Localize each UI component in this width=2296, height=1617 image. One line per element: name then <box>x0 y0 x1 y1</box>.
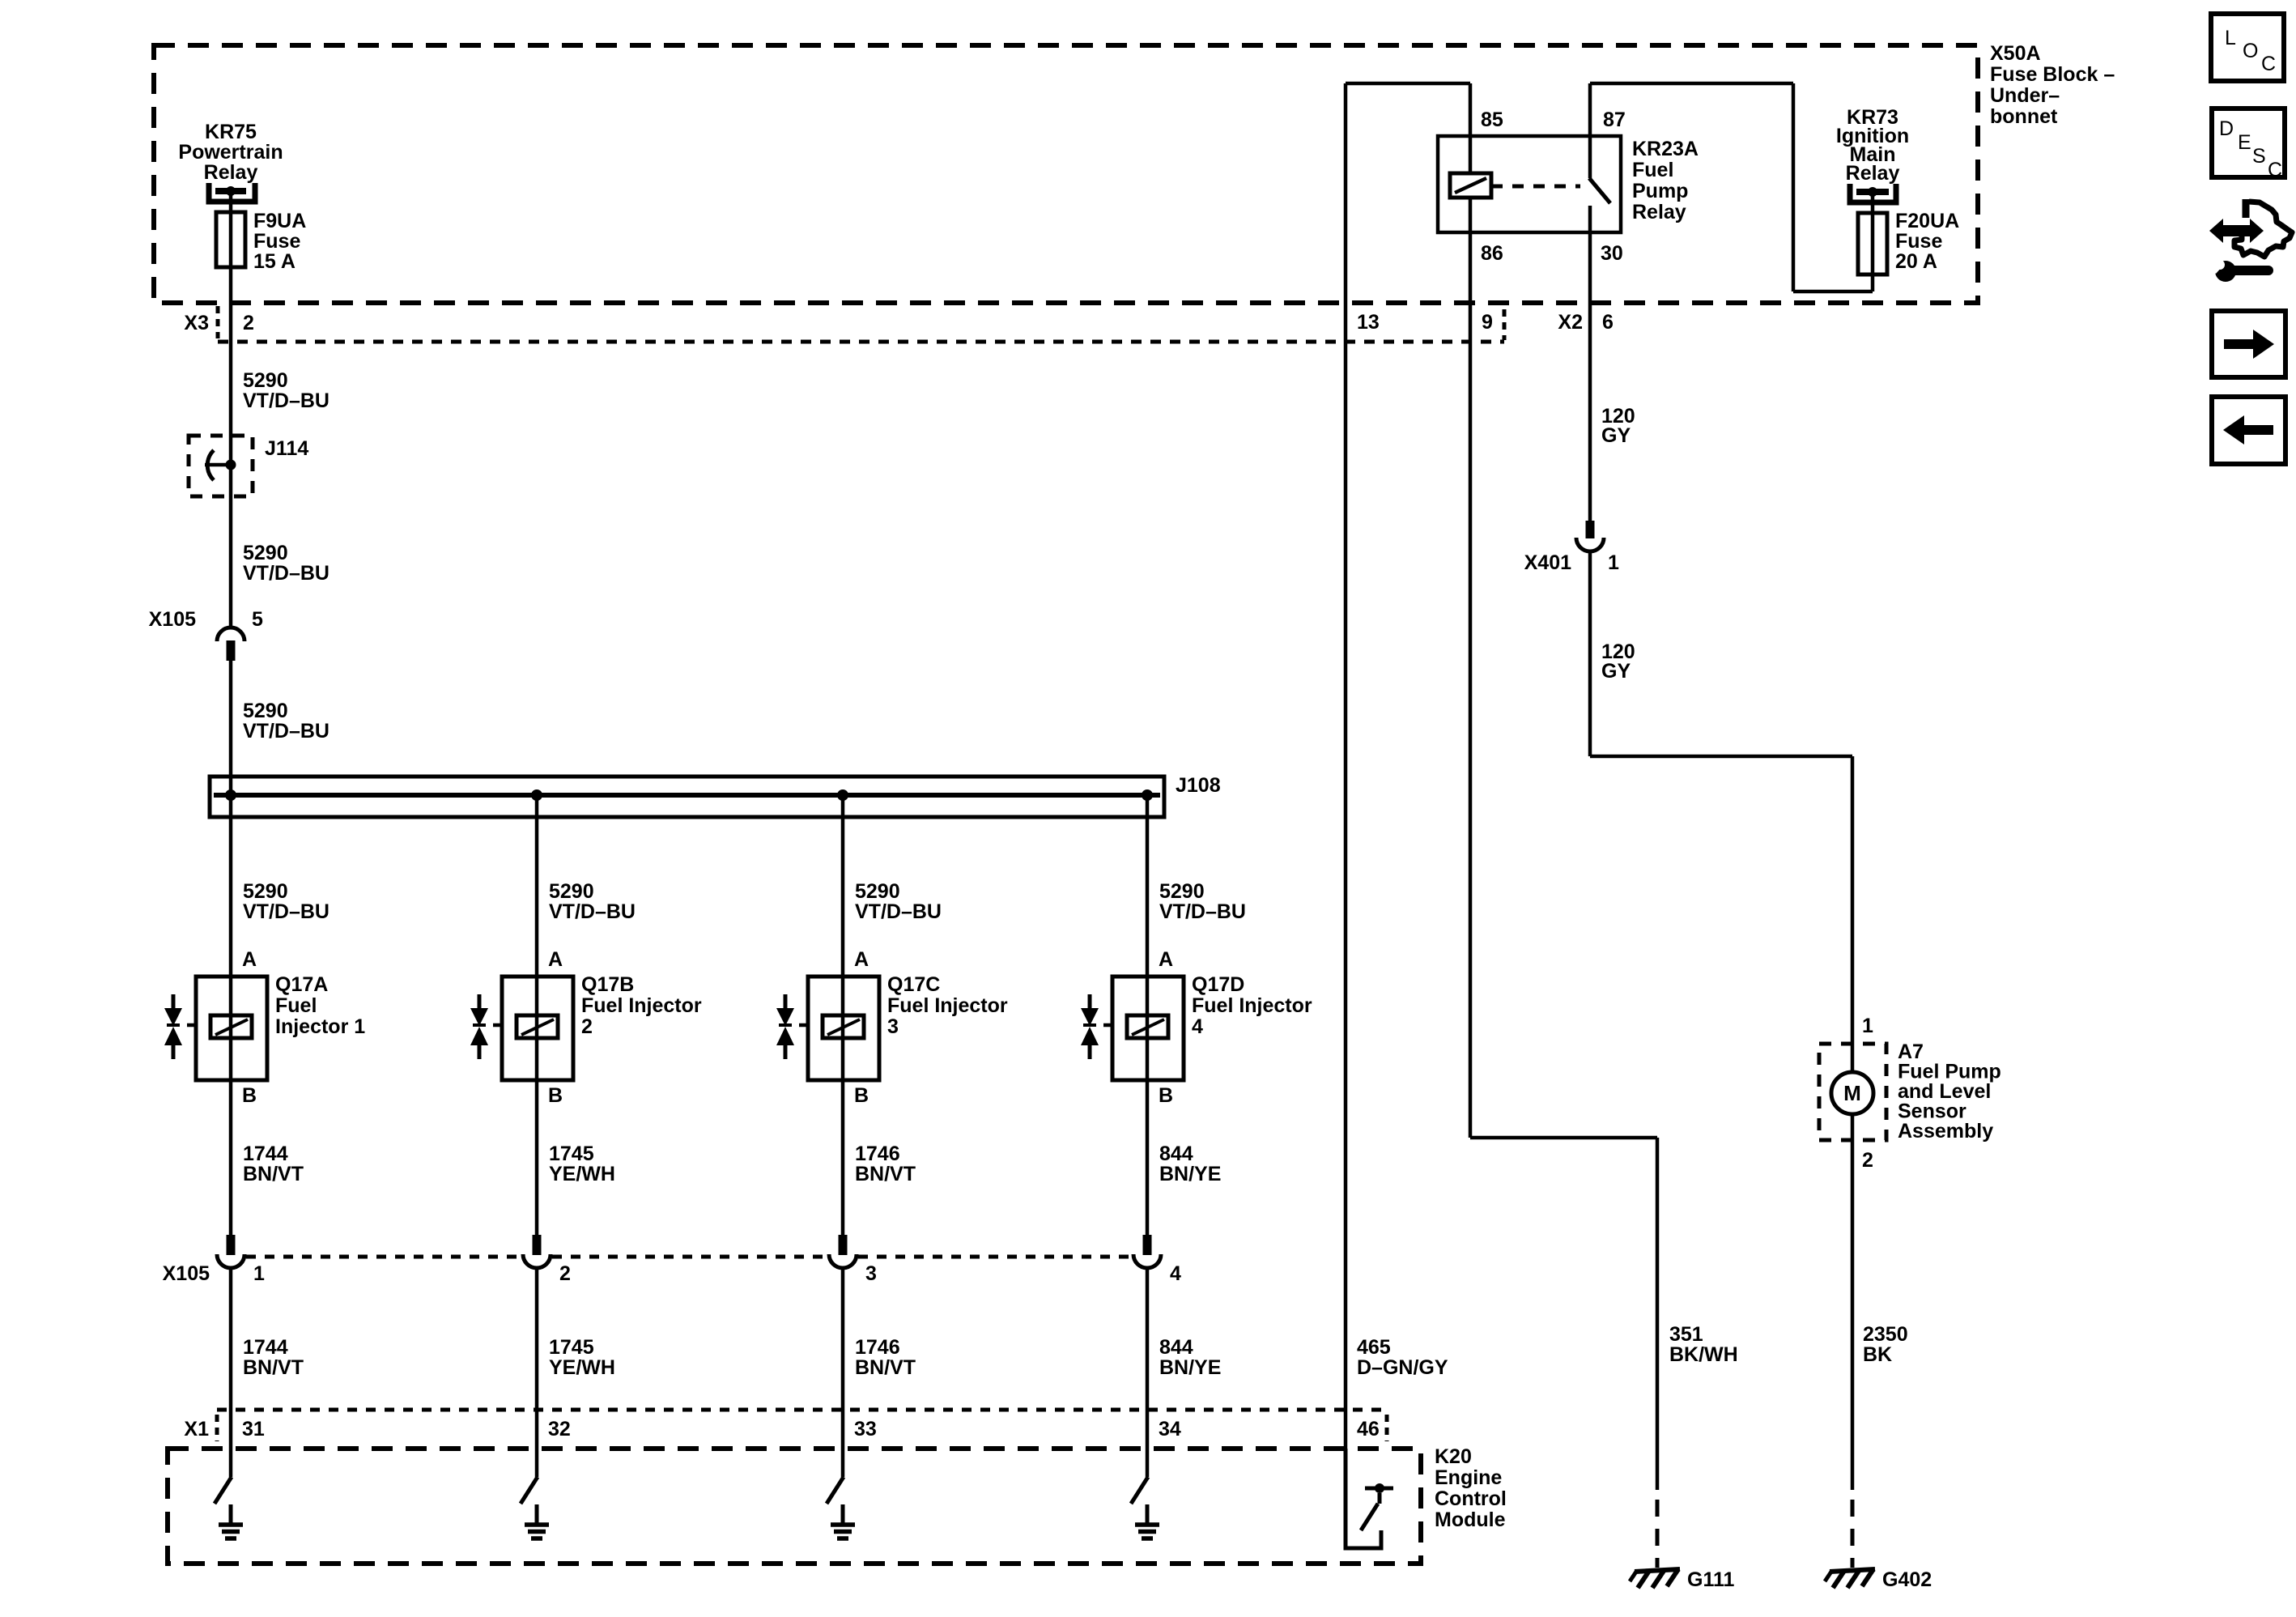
svg-text:4: 4 <box>1192 1015 1203 1038</box>
connector X3 tick mark <box>216 306 220 338</box>
ground symbol inside ECM col 4 <box>1146 1504 1150 1524</box>
junction node col3 <box>837 789 848 801</box>
svg-text:844: 844 <box>1159 1336 1193 1359</box>
relay KR23A coil-contact dashed link <box>1491 185 1580 189</box>
svg-text:5290: 5290 <box>243 880 288 903</box>
fuel injector Q17C coil <box>841 977 845 1080</box>
relay KR23A Fuel Pump Relay box <box>1438 136 1621 232</box>
wire X3 to splice J114 <box>229 342 233 465</box>
wire X105 to ECM pin 33 <box>841 1268 845 1477</box>
svg-text:D–GN/GY: D–GN/GY <box>1357 1356 1448 1379</box>
wire J108 to injector Q17B <box>535 795 539 977</box>
svg-text:Relay: Relay <box>204 161 258 184</box>
svg-text:351: 351 <box>1669 1323 1703 1346</box>
svg-text:G111: G111 <box>1687 1568 1734 1591</box>
icon box LOC <box>2211 14 2284 81</box>
wire injector Q17B to connector X105 <box>535 1080 539 1255</box>
splice pack J108 bus bar <box>214 793 1160 798</box>
fuse F20UA <box>1871 213 1875 274</box>
svg-text:Relay: Relay <box>1632 201 1686 223</box>
connector X401 male pin <box>1586 521 1595 538</box>
svg-text:BK/WH: BK/WH <box>1669 1343 1738 1366</box>
svg-text:Fuse: Fuse <box>1895 230 1942 253</box>
relay KR23A switch contact <box>1588 83 1592 178</box>
svg-text:5290: 5290 <box>855 880 900 903</box>
wire X105 to ECM pin 34 <box>1146 1268 1150 1477</box>
svg-text:C: C <box>2261 53 2276 75</box>
svg-text:YE/WH: YE/WH <box>549 1356 615 1379</box>
svg-text:Assembly: Assembly <box>1898 1120 1993 1143</box>
svg-text:2: 2 <box>243 312 254 334</box>
svg-text:34: 34 <box>1159 1418 1181 1440</box>
svg-text:20 A: 20 A <box>1895 250 1937 273</box>
svg-text:X105: X105 <box>163 1262 210 1285</box>
svg-text:3: 3 <box>887 1015 899 1038</box>
svg-text:A: A <box>1159 948 1173 971</box>
wire J108 to injector Q17D <box>1146 795 1150 977</box>
fuel injector Q17C box <box>808 977 879 1080</box>
wire X105 to ECM pin 32 <box>535 1268 539 1477</box>
svg-text:VT/D–BU: VT/D–BU <box>855 900 942 923</box>
svg-text:B: B <box>1159 1084 1173 1107</box>
ground symbol inside ECM col 1 <box>229 1504 233 1524</box>
svg-text:2: 2 <box>581 1015 593 1038</box>
svg-text:Q17A: Q17A <box>275 973 328 996</box>
svg-text:GY: GY <box>1601 424 1631 447</box>
svg-text:L: L <box>2225 27 2236 49</box>
icon box DESC <box>2212 109 2285 177</box>
fuse block X50A dashed outline <box>154 45 1978 303</box>
svg-text:VT/D–BU: VT/D–BU <box>243 389 330 412</box>
icon box arrow right <box>2212 311 2285 377</box>
svg-text:VT/D–BU: VT/D–BU <box>1159 900 1246 923</box>
svg-text:Q17B: Q17B <box>581 973 634 996</box>
svg-text:Engine: Engine <box>1435 1466 1502 1489</box>
svg-text:32: 32 <box>548 1418 571 1440</box>
svg-text:Module: Module <box>1435 1508 1506 1531</box>
svg-text:5: 5 <box>252 608 263 631</box>
wire pin 87 to fuse F20UA <box>1590 82 1793 86</box>
svg-text:Fuse Block –: Fuse Block – <box>1990 63 2115 86</box>
wire injector Q17C to connector X105 <box>841 1080 845 1255</box>
svg-text:B: B <box>548 1084 563 1107</box>
wire pin 86 down to connector row (node 9) <box>1469 232 1473 1138</box>
svg-text:GY: GY <box>1601 660 1631 683</box>
connector X401 female arc <box>1576 538 1604 551</box>
svg-text:F9UA: F9UA <box>253 210 306 232</box>
svg-text:VT/D–BU: VT/D–BU <box>243 562 330 585</box>
wire J108 to injector Q17C <box>841 795 845 977</box>
svg-text:KR23A: KR23A <box>1632 138 1699 160</box>
svg-text:S: S <box>2252 145 2266 168</box>
svg-text:3: 3 <box>865 1262 877 1285</box>
svg-text:Fuel Injector: Fuel Injector <box>887 994 1008 1017</box>
svg-text:BN/VT: BN/VT <box>243 1356 304 1379</box>
wire KR73 to fuse F20UA <box>1871 192 1875 213</box>
connector X1 left tick <box>215 1415 219 1441</box>
ECM low-side switch for Q17D <box>1131 1477 1148 1504</box>
svg-text:bonnet: bonnet <box>1990 105 2058 128</box>
fuel injector Q17A valve symbol <box>172 994 176 1009</box>
connector line X105 dashed <box>246 1255 521 1259</box>
connector X105 pin 1 male pin <box>227 1235 236 1255</box>
svg-text:33: 33 <box>854 1418 877 1440</box>
splice J114 symbol <box>205 463 231 467</box>
fuel injector Q17A coil <box>229 977 233 1080</box>
svg-text:5290: 5290 <box>243 700 288 722</box>
svg-text:BN/YE: BN/YE <box>1159 1163 1221 1185</box>
svg-text:Control: Control <box>1435 1487 1507 1510</box>
svg-text:1744: 1744 <box>243 1336 288 1359</box>
svg-text:J108: J108 <box>1176 774 1221 797</box>
svg-text:K20: K20 <box>1435 1445 1472 1468</box>
svg-text:BN/VT: BN/VT <box>243 1163 304 1185</box>
svg-text:Fuel Injector: Fuel Injector <box>581 994 702 1017</box>
svg-text:Fuel Injector: Fuel Injector <box>1192 994 1312 1017</box>
svg-text:87: 87 <box>1603 109 1626 131</box>
svg-text:Under–: Under– <box>1990 84 2060 107</box>
svg-text:B: B <box>242 1084 257 1107</box>
connector line X1 dashed <box>217 1408 1387 1412</box>
svg-text:5290: 5290 <box>243 369 288 392</box>
svg-text:31: 31 <box>242 1418 265 1440</box>
svg-text:YE/WH: YE/WH <box>549 1163 615 1185</box>
ground G111 symbol <box>1635 1569 1680 1572</box>
svg-text:9: 9 <box>1482 311 1493 334</box>
svg-text:Fuse: Fuse <box>253 230 300 253</box>
svg-text:4: 4 <box>1170 1262 1181 1285</box>
connector X105 pin 3 male pin <box>839 1235 848 1255</box>
wire injector Q17A to connector X105 <box>229 1080 233 1255</box>
connector X105 pin 2 female arc <box>523 1254 551 1268</box>
junction node col2 <box>531 789 542 801</box>
fuel injector Q17B coil <box>535 977 539 1080</box>
svg-text:BN/VT: BN/VT <box>855 1163 916 1185</box>
splice J114 dashed box <box>189 436 253 496</box>
svg-text:F20UA: F20UA <box>1895 210 1959 232</box>
svg-text:Relay: Relay <box>1846 162 1900 185</box>
svg-text:6: 6 <box>1602 311 1614 334</box>
wire F9UA fuse to connector X3 pin 2 <box>229 267 233 342</box>
svg-text:Q17C: Q17C <box>887 973 940 996</box>
svg-text:5290: 5290 <box>549 880 594 903</box>
svg-text:X1: X1 <box>184 1418 209 1440</box>
wire X401 to fuel pump A7 <box>1588 551 1592 756</box>
svg-text:1746: 1746 <box>855 1336 900 1359</box>
svg-text:1: 1 <box>253 1262 265 1285</box>
svg-text:G402: G402 <box>1882 1568 1932 1591</box>
svg-text:2: 2 <box>559 1262 571 1285</box>
fuel injector Q17D box <box>1112 977 1184 1080</box>
connector line X3-X2 dashed <box>218 340 1504 344</box>
svg-text:86: 86 <box>1481 242 1503 265</box>
wire 465 hook inside ECM <box>1346 1449 1381 1548</box>
ECM K20 dashed outline <box>168 1449 1421 1564</box>
svg-text:Pump: Pump <box>1632 180 1688 202</box>
wire J108 to injector Q17A <box>229 795 233 977</box>
wire turn to A7 column <box>1590 755 1852 759</box>
connector X105 pin 2 male pin <box>533 1235 542 1255</box>
svg-text:VT/D–BU: VT/D–BU <box>243 900 330 923</box>
svg-text:O: O <box>2243 40 2258 62</box>
svg-text:M: M <box>1843 1081 1861 1105</box>
svg-text:5290: 5290 <box>243 542 288 564</box>
svg-text:X2: X2 <box>1558 311 1583 334</box>
svg-text:Fuel: Fuel <box>275 994 317 1017</box>
fuel pump A7 dashed box <box>1819 1044 1886 1140</box>
connector X1 right tick <box>1385 1415 1389 1441</box>
svg-text:1: 1 <box>1608 551 1619 574</box>
connector X105 pin 3 female arc <box>829 1254 857 1268</box>
fuse F9UA <box>229 212 233 267</box>
ECM low-side switch for Q17A <box>215 1477 232 1504</box>
wire KR75 to fuse F9UA <box>229 191 233 212</box>
svg-text:J114: J114 <box>265 437 308 460</box>
junction node col1 <box>225 789 236 801</box>
connector X105 pin 1 female arc <box>217 1254 244 1268</box>
svg-text:E: E <box>2238 131 2251 154</box>
svg-text:X50A: X50A <box>1990 42 2041 65</box>
svg-text:Fuel: Fuel <box>1632 159 1673 181</box>
svg-text:BK: BK <box>1863 1343 1892 1366</box>
wire node 13 vertical (circuit 465 feed) <box>1344 83 1348 1449</box>
svg-text:15 A: 15 A <box>253 250 296 273</box>
svg-text:VT/D–BU: VT/D–BU <box>549 900 636 923</box>
fuel injector Q17A box <box>196 977 267 1080</box>
svg-text:B: B <box>854 1084 869 1107</box>
svg-text:1: 1 <box>1862 1015 1873 1037</box>
svg-text:2: 2 <box>1862 1149 1873 1172</box>
ground symbol inside ECM col 3 <box>841 1504 845 1524</box>
connector X2 tick mark <box>1503 309 1507 340</box>
svg-text:A: A <box>242 948 257 971</box>
svg-text:BN/YE: BN/YE <box>1159 1356 1221 1379</box>
wire to ground G111 dashed lead <box>1656 1500 1660 1568</box>
fuel pump A7 motor symbol <box>1831 1072 1873 1114</box>
svg-text:1745: 1745 <box>549 1336 594 1359</box>
wire X105-5 to bus J108 <box>229 661 233 795</box>
fuel injector Q17B box <box>502 977 573 1080</box>
svg-text:C: C <box>2268 159 2282 181</box>
svg-text:BN/VT: BN/VT <box>855 1356 916 1379</box>
svg-text:X3: X3 <box>184 312 209 334</box>
svg-text:465: 465 <box>1357 1336 1391 1359</box>
fuel injector Q17B valve symbol <box>478 994 482 1009</box>
wire X105 to ECM pin 31 <box>229 1268 233 1477</box>
wire injector Q17D to connector X105 <box>1146 1080 1150 1255</box>
svg-text:VT/D–BU: VT/D–BU <box>243 720 330 743</box>
svg-text:46: 46 <box>1357 1418 1380 1440</box>
ground symbol inside ECM col 2 <box>535 1504 539 1524</box>
fuel injector Q17D valve symbol <box>1088 994 1092 1009</box>
svg-text:13: 13 <box>1357 311 1380 334</box>
icon box arrow left <box>2212 397 2285 464</box>
svg-text:844: 844 <box>1159 1143 1193 1165</box>
svg-text:30: 30 <box>1601 242 1623 265</box>
svg-text:A: A <box>548 948 563 971</box>
svg-text:85: 85 <box>1481 109 1503 131</box>
relay KR75 terminal symbol <box>209 183 255 202</box>
svg-text:D: D <box>2219 117 2234 140</box>
wire 9 to ground G111 run (circuit 351) <box>1470 1136 1657 1140</box>
svg-text:A: A <box>854 948 869 971</box>
ECM low-side switch for Q17B <box>521 1477 538 1504</box>
fuel injector Q17D coil <box>1146 977 1150 1080</box>
svg-text:1746: 1746 <box>855 1143 900 1165</box>
svg-text:1745: 1745 <box>549 1143 594 1165</box>
splice pack J108 outline <box>210 777 1164 817</box>
relay KR73 terminal symbol <box>1850 184 1896 202</box>
junction node col4 <box>1142 789 1153 801</box>
ECM pin 46 driver rail <box>1365 1487 1393 1491</box>
icon hand with double arrow and wrench <box>2209 219 2264 243</box>
svg-text:KR75: KR75 <box>205 121 257 143</box>
ECM low-side switch for Q17C <box>827 1477 844 1504</box>
ground G402 symbol <box>1830 1569 1875 1572</box>
wire pin 85 to node 13 (top feed) <box>1346 82 1470 86</box>
wire J114 to connector X105 pin 5 <box>229 465 233 627</box>
svg-text:1744: 1744 <box>243 1143 288 1165</box>
connector X105 pin 5 male pin <box>227 640 236 661</box>
connector X105 pin 5 female arc <box>217 628 244 641</box>
svg-text:X105: X105 <box>149 608 196 631</box>
wire 30 down to X2 pin 6 <box>1588 232 1592 521</box>
fuel injector Q17C valve symbol <box>784 994 788 1009</box>
wire A7 pin 2 down (circuit 2350) <box>1851 1113 1855 1490</box>
svg-text:2350: 2350 <box>1863 1323 1908 1346</box>
svg-text:Q17D: Q17D <box>1192 973 1244 996</box>
svg-text:5290: 5290 <box>1159 880 1205 903</box>
wire to ground G402 dashed lead <box>1851 1500 1855 1568</box>
svg-text:Injector 1: Injector 1 <box>275 1015 365 1038</box>
svg-text:X401: X401 <box>1524 551 1571 574</box>
svg-text:Powertrain: Powertrain <box>178 141 283 164</box>
connector X105 pin 4 female arc <box>1133 1254 1161 1268</box>
connector X105 pin 4 male pin <box>1143 1235 1152 1255</box>
ECM pin 46 switch lever <box>1361 1504 1378 1530</box>
relay KR23A coil <box>1469 136 1473 173</box>
